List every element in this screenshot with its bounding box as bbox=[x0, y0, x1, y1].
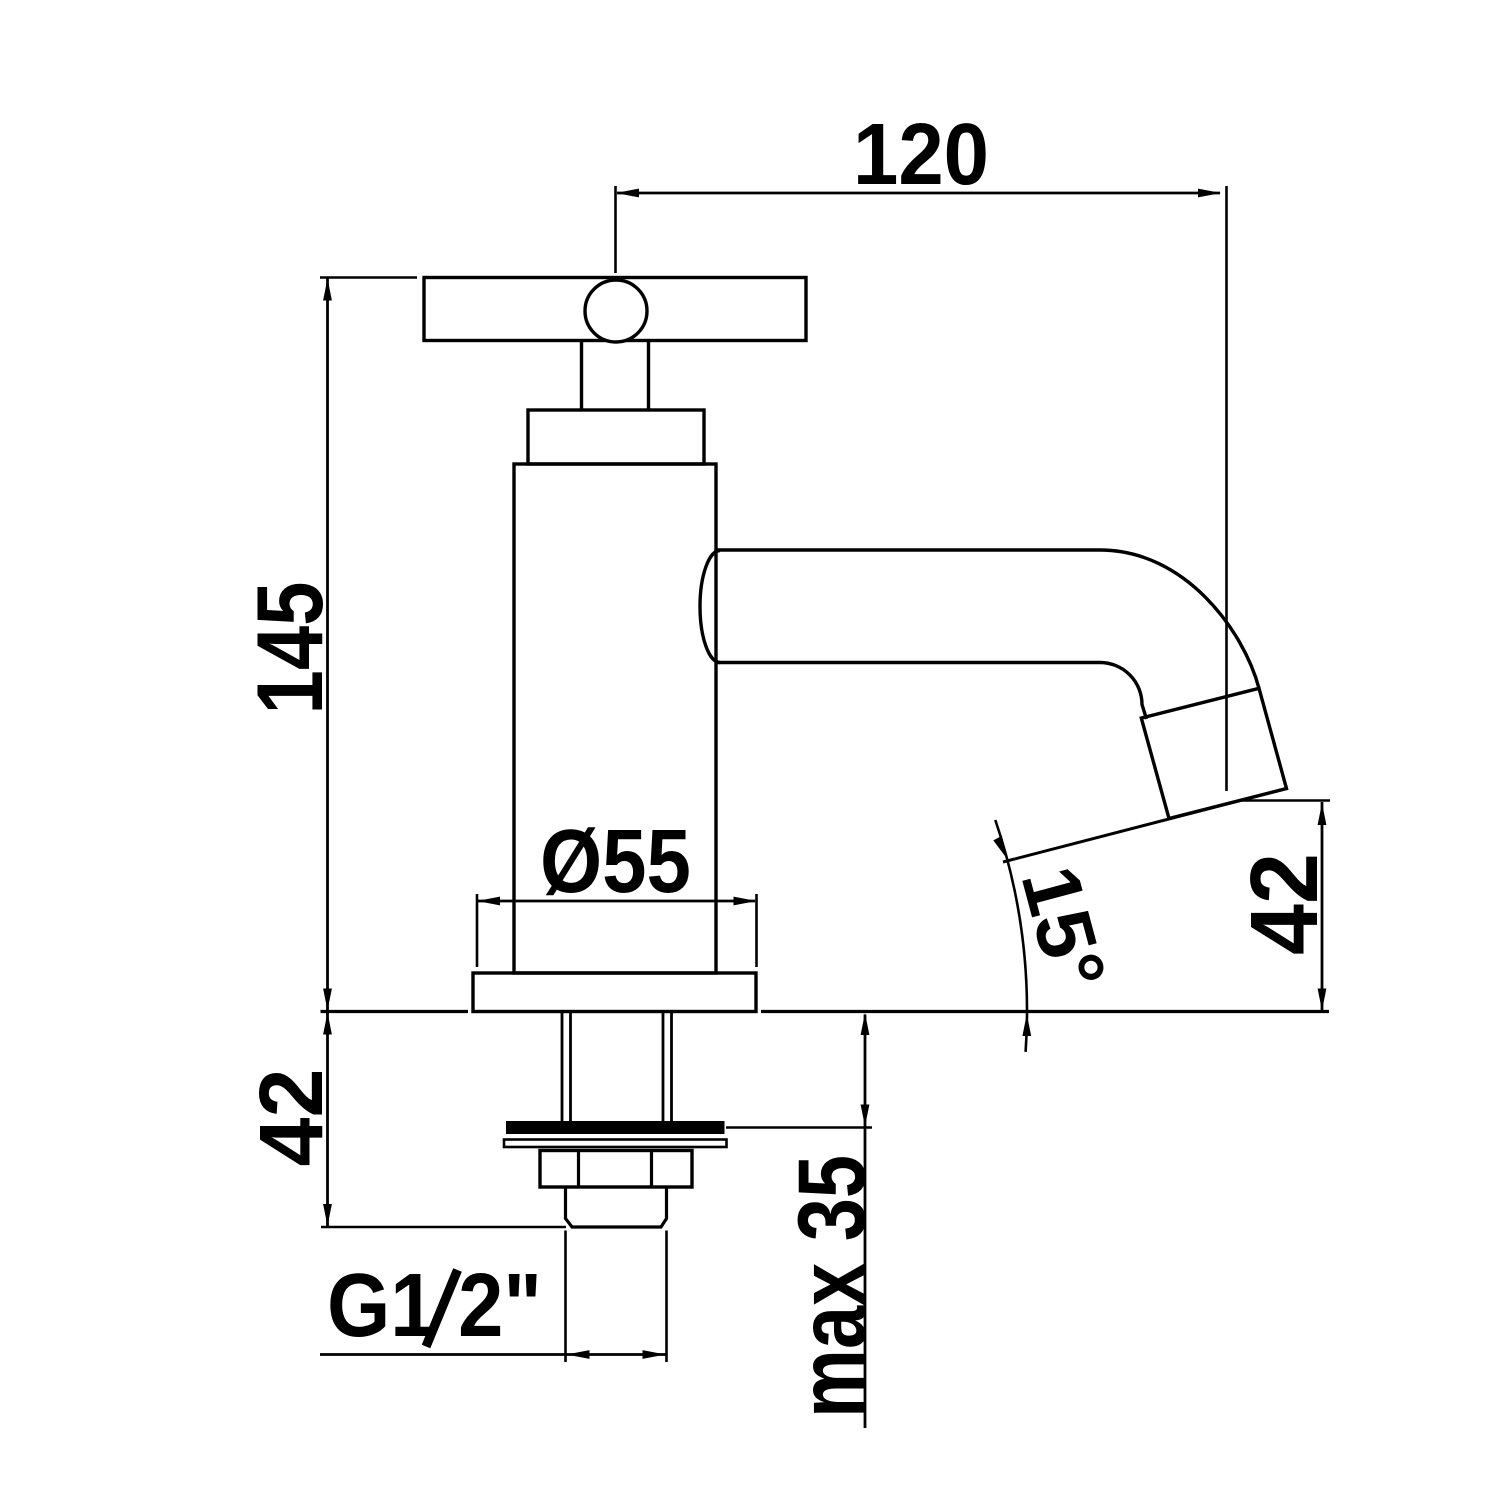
dim 15deg arrow at base bbox=[1022, 1014, 1031, 1036]
dim G1/2 extension lines bbox=[566, 1231, 667, 1363]
dim 42 left line bbox=[326, 1012, 329, 1228]
dim 42 right line bbox=[1321, 802, 1324, 1012]
handle stem bbox=[582, 341, 649, 411]
svg-text:G1 2": G1 2" bbox=[327, 1256, 542, 1356]
dim D55 line bbox=[478, 900, 755, 903]
dim G1/2 line bbox=[320, 1353, 667, 1356]
dim 120 arrow left bbox=[616, 189, 639, 198]
mounting nut bbox=[540, 1151, 692, 1188]
dim 42 right extension top bbox=[1240, 799, 1330, 802]
spout outer elbow curve bbox=[1100, 550, 1259, 688]
dim 42 left label bbox=[242, 1069, 342, 1167]
dim 42 right label bbox=[1231, 853, 1338, 955]
handle hub circle bbox=[585, 280, 647, 342]
dim 42 left arrow top bbox=[323, 1013, 332, 1035]
dim D55 arrow right bbox=[734, 897, 757, 906]
dim 15deg label bbox=[1004, 857, 1123, 999]
dim max35 arrow top bbox=[861, 1013, 870, 1035]
threaded shank lines bbox=[562, 1012, 672, 1122]
threaded tail bbox=[566, 1187, 667, 1227]
svg-text:120: 120 bbox=[853, 106, 989, 203]
spout inner elbow curve bbox=[1100, 663, 1147, 720]
dim 42 left arrow bottom bbox=[323, 1204, 332, 1226]
dim 145 line bbox=[326, 278, 329, 1012]
spout tube top line bbox=[716, 548, 1100, 551]
countertop line right bbox=[761, 1010, 1329, 1013]
bonnet collar bbox=[528, 410, 704, 464]
rubber washer (solid) bbox=[506, 1121, 725, 1134]
dim D55 arrow left bbox=[477, 897, 500, 906]
nut facet lines bbox=[579, 1151, 652, 1188]
dim 145 label bbox=[237, 582, 342, 715]
dim max35 arrow bottom bbox=[861, 1105, 870, 1127]
dim 15deg arrow on incline bbox=[993, 836, 1007, 859]
dim 15deg arc bbox=[995, 820, 1027, 1052]
dim G1/2 slash stroke bbox=[426, 1270, 458, 1347]
svg-text:42: 42 bbox=[1231, 853, 1338, 955]
dim 120 extension line left bbox=[614, 186, 617, 273]
base flange bbox=[473, 973, 756, 1012]
dim D55 extension lines bbox=[477, 894, 757, 967]
dim max35 line bbox=[864, 1015, 867, 1429]
dim 15deg nozzle face extension line bbox=[1003, 789, 1287, 863]
svg-text:42: 42 bbox=[242, 1069, 342, 1167]
dim 145 arrow top bbox=[323, 279, 332, 301]
dim max35 label bbox=[779, 1155, 886, 1418]
dim 120 arrow right bbox=[1198, 189, 1221, 198]
dim 42 right arrow bottom bbox=[1318, 989, 1327, 1011]
svg-text:Ø55: Ø55 bbox=[540, 812, 691, 912]
spout nozzle collar bbox=[1141, 688, 1286, 818]
countertop line left bbox=[321, 1010, 469, 1013]
dim 145 arrow bottom bbox=[323, 989, 332, 1011]
dim max35 washer extension line bbox=[726, 1126, 872, 1129]
dim 145 extension line top bbox=[320, 276, 417, 279]
spout left rounded cap bbox=[700, 551, 720, 663]
svg-text:max 35: max 35 bbox=[779, 1155, 886, 1418]
dim 42 left extension bottom bbox=[321, 1226, 566, 1229]
dim 120 extension line right bbox=[1225, 186, 1228, 791]
dim 120 line bbox=[617, 192, 1220, 195]
handle cross bar bbox=[424, 278, 806, 341]
metal washer bbox=[504, 1140, 727, 1148]
dim 42 right arrow top bbox=[1318, 803, 1327, 825]
dim G1/2 arrow right bbox=[643, 1350, 666, 1359]
dim G1/2 arrow left bbox=[567, 1350, 590, 1359]
svg-text:145: 145 bbox=[237, 582, 342, 715]
spout tube bottom line bbox=[716, 661, 1100, 664]
faucet body bbox=[514, 464, 716, 973]
